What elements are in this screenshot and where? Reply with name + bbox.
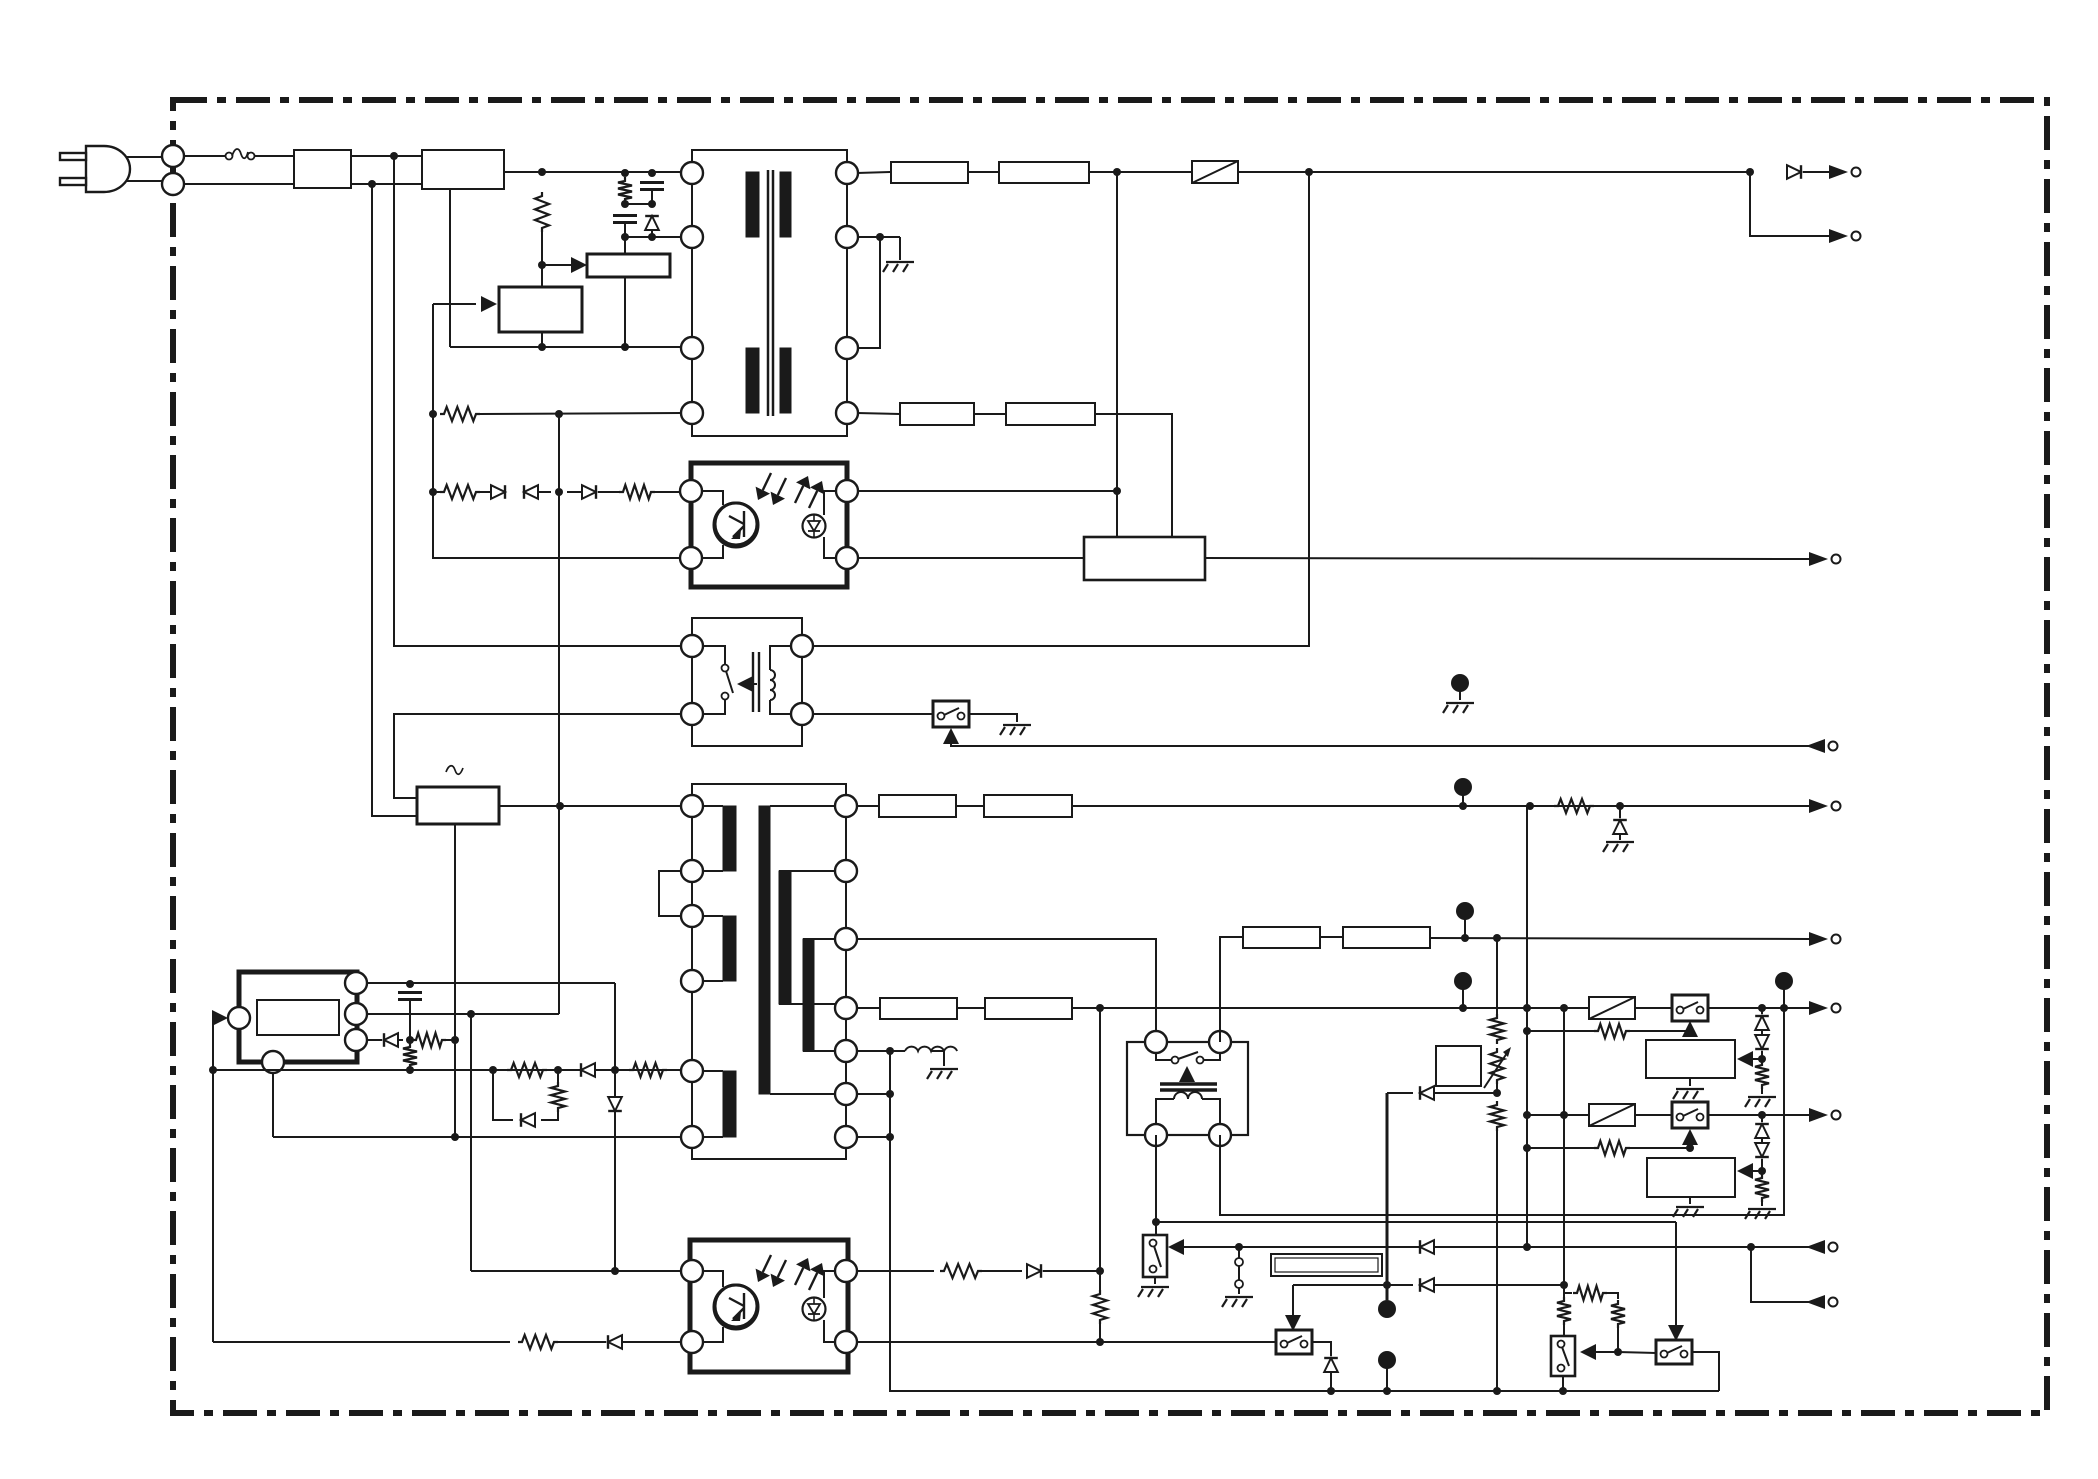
arrow into SW-A bbox=[943, 728, 959, 744]
zener ZD6 bbox=[1324, 1358, 1338, 1372]
node BC bbox=[1560, 1111, 1568, 1119]
node BK bbox=[1747, 1243, 1755, 1251]
node H bbox=[538, 343, 546, 351]
node BQ bbox=[1559, 1387, 1567, 1395]
wire SW4 left bbox=[1100, 1341, 1276, 1343]
wire to SW5 arrow bbox=[1591, 1351, 1618, 1353]
wire SW4 feed bbox=[1292, 1285, 1294, 1322]
T1 pin8 bbox=[836, 402, 858, 424]
resistor R22 bbox=[1611, 1300, 1625, 1328]
wire zch1 bbox=[1761, 1008, 1763, 1059]
T2 secondary bar B bbox=[803, 939, 814, 1051]
wire R22 to node bbox=[1617, 1328, 1619, 1352]
node BJ bbox=[1523, 1243, 1531, 1251]
PC1 pin3 bbox=[836, 480, 858, 502]
terminal OUT1 bbox=[1829, 165, 1861, 179]
resistor R10 bbox=[551, 1082, 565, 1112]
capacitor C3 bbox=[398, 993, 422, 1000]
RL1 core bbox=[753, 652, 759, 712]
wire J1-2 to filter bbox=[184, 183, 294, 185]
node E bbox=[648, 169, 656, 177]
wire V down bbox=[470, 1014, 472, 1271]
connector E4 bbox=[1454, 972, 1472, 1008]
wire T2 R7 stub bbox=[856, 1136, 890, 1138]
T2 primary bar 3 bbox=[723, 1071, 736, 1137]
T2 pinR5 bbox=[835, 1040, 857, 1062]
block U2 bbox=[587, 254, 670, 277]
resistor R13 bbox=[1093, 1290, 1107, 1324]
resistor R7 bbox=[403, 1043, 417, 1069]
wire R12 to D11 bbox=[982, 1270, 1022, 1272]
diode D3 bbox=[524, 485, 538, 499]
PC1 LED bbox=[803, 515, 826, 538]
RL2 core bbox=[1160, 1084, 1217, 1090]
connector pin J1-1 bbox=[162, 145, 184, 167]
node BM bbox=[1560, 1281, 1568, 1289]
diode D1 snubber bbox=[645, 216, 659, 230]
wire D13 segs bbox=[1413, 1246, 1527, 1248]
node BG bbox=[1686, 1144, 1694, 1152]
resistor R6 bbox=[412, 1033, 446, 1047]
node AN bbox=[1096, 1004, 1104, 1012]
switch SW6 bbox=[1656, 1340, 1692, 1364]
diode D9 bbox=[608, 1097, 622, 1111]
node AS bbox=[1780, 1004, 1788, 1012]
regulator block U4 bbox=[1084, 537, 1205, 580]
node AQ bbox=[1560, 1004, 1568, 1012]
T2 pinR7 bbox=[835, 1126, 857, 1148]
capacitor C1 snubber bbox=[613, 216, 637, 223]
node V bbox=[467, 1010, 475, 1018]
ground G5 bbox=[1138, 1287, 1169, 1297]
ground G3 bbox=[1443, 703, 1474, 713]
switch SW1 bbox=[1672, 995, 1708, 1021]
node AB bbox=[554, 1066, 562, 1074]
T1 core bbox=[768, 170, 773, 416]
ground G4 bbox=[1603, 842, 1634, 852]
wire VR1 to node bbox=[1496, 1084, 1498, 1093]
node L bbox=[555, 410, 563, 418]
AC plug P1 bbox=[60, 146, 130, 192]
ground G10 bbox=[1745, 1209, 1776, 1219]
PC2 pin1 bbox=[681, 1260, 703, 1282]
wire SW3 control bbox=[1180, 1246, 1815, 1248]
node W bbox=[406, 1036, 414, 1044]
wire D10 to PC2 bbox=[622, 1341, 682, 1343]
resistor R14 bbox=[1554, 799, 1594, 813]
transformer T1 outline bbox=[692, 150, 847, 436]
wire R10 up bbox=[557, 1070, 559, 1082]
terminal OUT5 bbox=[1809, 932, 1841, 946]
T2 pinR1 bbox=[835, 795, 857, 817]
wire D8 to R10 bbox=[541, 1112, 558, 1120]
wire FL5-FL6 bbox=[956, 805, 984, 807]
wire R3 to T1 pin4 bbox=[480, 413, 681, 414]
PC1 phototransistor bbox=[714, 503, 758, 547]
T2 main secondary bar bbox=[759, 806, 770, 1094]
optocoupler PC2 body bbox=[690, 1240, 848, 1372]
node T bbox=[556, 802, 564, 810]
diode D12 bbox=[1420, 1086, 1434, 1100]
wire U3 bottom stem bbox=[541, 332, 543, 347]
wire C2 down bbox=[651, 190, 653, 204]
node AM bbox=[1152, 1218, 1160, 1226]
RL2 pin4 bbox=[1209, 1124, 1231, 1146]
node BD bbox=[1758, 1111, 1766, 1119]
wire PC1 out bottom bbox=[857, 557, 1084, 559]
node R bbox=[1746, 168, 1754, 176]
node D bbox=[621, 233, 629, 241]
RL2 pin3 bbox=[1145, 1124, 1167, 1146]
wire FL1-FL2 bbox=[968, 171, 999, 173]
arrow into U3 bbox=[481, 296, 497, 312]
resistor R17 bbox=[1594, 1024, 1630, 1038]
node AT bbox=[886, 1047, 894, 1055]
wire zch2 bbox=[1761, 1115, 1763, 1171]
wire D12 to AW bbox=[1434, 1092, 1497, 1094]
wire neutral rail down to converter bbox=[372, 184, 417, 816]
T1 pin3 bbox=[681, 337, 703, 359]
RL1 arrow bbox=[737, 676, 757, 692]
terminal IN1 bbox=[1806, 739, 1838, 753]
wire SW6 return bbox=[1692, 1352, 1719, 1391]
PC2 pin4 bbox=[835, 1331, 857, 1353]
switch SW4 bbox=[1276, 1330, 1312, 1354]
wire IC1 feed vertical bbox=[212, 1018, 214, 1342]
resistor R12 bbox=[940, 1264, 982, 1278]
inductor FL6 bbox=[984, 795, 1072, 817]
inductor FL2 bbox=[999, 162, 1089, 183]
wire snubber link bbox=[625, 203, 652, 205]
arrow into IC1 bbox=[212, 1010, 228, 1026]
IC1 pin r2 bbox=[345, 1003, 367, 1025]
wire row1285 bbox=[1293, 1284, 1413, 1286]
terminal OUT6 bbox=[1809, 1001, 1841, 1015]
wire ground rail bbox=[890, 1051, 1719, 1391]
arrow into U2 bbox=[571, 257, 587, 273]
wire BM elbow bbox=[1564, 1285, 1572, 1293]
wire U5 gnd bbox=[1689, 1078, 1691, 1086]
wire RL2 pin2 up bbox=[1220, 937, 1243, 1042]
wire RL2 pin4 return bbox=[1220, 1008, 1784, 1215]
wire fuse to filter bbox=[254, 155, 294, 157]
wire R1 to U2 input bbox=[542, 232, 574, 265]
connector E2 bbox=[1454, 778, 1472, 806]
ground G11 bbox=[1222, 1297, 1253, 1307]
node AH bbox=[1459, 802, 1467, 810]
wire T2 R5 stub bbox=[856, 1050, 905, 1052]
fuse F1 bbox=[226, 149, 255, 160]
switch SW5 bbox=[1551, 1336, 1575, 1376]
diode D7 bbox=[581, 1063, 595, 1077]
connector E3 bbox=[1456, 902, 1474, 938]
arrow into SW4 bbox=[1285, 1315, 1301, 1331]
wire SW5 down bbox=[1562, 1376, 1564, 1391]
node neutral bbox=[368, 180, 376, 188]
wire ZD6 down bbox=[1330, 1372, 1332, 1391]
node F bbox=[648, 200, 656, 208]
node AD bbox=[611, 1267, 619, 1275]
RL1 pin2 bbox=[791, 635, 813, 657]
wire R18 gnd bbox=[1761, 1089, 1763, 1094]
wire PC1 out top bbox=[857, 490, 1117, 492]
node BI bbox=[1235, 1243, 1243, 1251]
wire row1070 bbox=[213, 1069, 682, 1071]
wire F2 to out bbox=[1238, 171, 1750, 173]
ground G1 bbox=[883, 262, 914, 272]
T2 pinL6 bbox=[681, 1126, 703, 1148]
wire IC1 r3 row bbox=[367, 1039, 382, 1041]
T1 pin5 bbox=[836, 162, 858, 184]
PC2 pin2 bbox=[681, 1331, 703, 1353]
connector E5 bbox=[1775, 972, 1793, 1008]
T2 pinR3 bbox=[835, 928, 857, 950]
node Y bbox=[406, 1066, 414, 1074]
variable resistor VR1 bbox=[1484, 1047, 1511, 1088]
T1 pin4 bbox=[681, 402, 703, 424]
PC1 internal links bbox=[701, 491, 837, 558]
arrow into U6 bbox=[1737, 1163, 1762, 1179]
inductor FL4 bbox=[1006, 403, 1095, 425]
rectifier block D-B1 bbox=[422, 150, 504, 189]
wire feedback vertical bbox=[433, 304, 681, 558]
IC1 pin bottom bbox=[262, 1051, 284, 1073]
inductor FL9 bbox=[880, 998, 957, 1019]
node Q bbox=[1305, 168, 1313, 176]
node AY bbox=[1523, 1027, 1531, 1035]
feedback bold line bbox=[1386, 1093, 1389, 1300]
wire D5 to terminal bbox=[1803, 171, 1830, 173]
RL2 coil bbox=[1156, 1092, 1220, 1125]
ground G7 bbox=[1673, 1089, 1704, 1099]
PC2 phototransistor bbox=[715, 1285, 757, 1327]
wire filter to rectifier L bbox=[351, 155, 422, 157]
wire rectifier to T1 pin1 bbox=[504, 171, 681, 173]
wire ch2 main bbox=[1527, 1114, 1810, 1116]
wire T1 pin5 out bbox=[857, 172, 891, 173]
node AR bbox=[1758, 1004, 1766, 1012]
node AZ bbox=[1686, 1027, 1694, 1035]
PC2 pin3 bbox=[835, 1260, 857, 1282]
wire U2 bottom stem bbox=[624, 277, 626, 347]
wire snubber to T1 pin2 bbox=[625, 236, 681, 238]
zener ZD1 bbox=[1613, 820, 1627, 834]
wire row1222 bbox=[1156, 1221, 1676, 1223]
block U6 bbox=[1647, 1158, 1735, 1197]
ground G2 bbox=[1000, 725, 1031, 735]
resistor R11 bbox=[518, 1335, 558, 1349]
wire SW3 gnd bbox=[1154, 1277, 1156, 1284]
fuse F4 bbox=[1589, 1104, 1635, 1126]
node AW bbox=[1493, 1089, 1501, 1097]
inductor L1 bbox=[905, 1047, 957, 1051]
wire R19 to arrow bbox=[1630, 1147, 1690, 1149]
border frame (dash-dot isolation boundary) bbox=[173, 100, 2047, 1413]
node J bbox=[429, 410, 437, 418]
T2 pin stubs bbox=[702, 806, 846, 1137]
wire segs row492 bbox=[480, 491, 491, 493]
wire VR chain top bbox=[1496, 938, 1498, 1014]
connector E6 bbox=[1378, 1300, 1396, 1318]
wire drop to OUT2 bbox=[1750, 172, 1830, 236]
wire row1271 bbox=[471, 1270, 682, 1272]
resistor R15 bbox=[1490, 1014, 1504, 1044]
loop branch bbox=[493, 1070, 513, 1120]
IC1 pin left bbox=[228, 1007, 250, 1029]
diode D2 bbox=[491, 485, 505, 499]
node AU bbox=[886, 1090, 894, 1098]
wire IC1 r2 row bbox=[367, 1013, 559, 1015]
PC2 LED bbox=[803, 1298, 826, 1321]
node AE bbox=[451, 1133, 459, 1141]
wire pin6 to pin7 link bbox=[857, 237, 880, 348]
wire FL3-FL4 bbox=[974, 413, 1006, 415]
wire U6 gnd bbox=[1689, 1197, 1691, 1204]
line filter LF1 bbox=[294, 150, 351, 188]
T2 pinR6 bbox=[835, 1083, 857, 1105]
T1 pin7 bbox=[836, 337, 858, 359]
wire RL1 pin4 to SW-A bbox=[812, 713, 934, 715]
wire row1137 bbox=[273, 1136, 682, 1138]
node N bbox=[876, 233, 884, 241]
node AA bbox=[489, 1066, 497, 1074]
T2 pin2-3 jumper bbox=[659, 871, 682, 916]
wire T2 R3 to RL2 bbox=[856, 939, 1156, 1042]
wire ch2 R row bbox=[1527, 1147, 1594, 1149]
optocoupler PC1 body bbox=[691, 463, 847, 587]
wire live rail down to relay bbox=[394, 156, 681, 646]
PC2 phototransistor bbox=[714, 1285, 758, 1329]
wire row983 to PC2 bbox=[614, 983, 616, 1271]
T2 pinR4 bbox=[835, 997, 857, 1019]
node C bbox=[621, 200, 629, 208]
node A bbox=[538, 168, 546, 176]
T2 pinL3 bbox=[681, 905, 703, 927]
wire D3 to node bbox=[538, 491, 551, 493]
wire node to D4 bbox=[433, 491, 441, 493]
wire T1 pin8 out bbox=[857, 413, 900, 414]
wire J1-1 to fuse bbox=[184, 155, 225, 157]
connector E7 bbox=[1378, 1351, 1396, 1391]
node BH bbox=[1758, 1167, 1766, 1175]
resistor R9 bbox=[629, 1063, 667, 1077]
diode D11 bbox=[1027, 1264, 1041, 1278]
wire FL4 to regulator bbox=[1095, 414, 1172, 537]
node A2 bbox=[538, 261, 546, 269]
wire B1 stem bbox=[454, 823, 456, 1137]
T2 pinL5 bbox=[681, 1060, 703, 1082]
T2 pinL2 bbox=[681, 860, 703, 882]
inductor FL3 bbox=[900, 403, 974, 425]
connector pin J1-2 bbox=[162, 173, 184, 195]
converter block B1 bbox=[417, 787, 499, 824]
fuse F3 bbox=[1589, 997, 1635, 1019]
terminal OUT3 bbox=[1809, 552, 1841, 566]
PC1 pin1 bbox=[680, 480, 702, 502]
wire SW4 right bbox=[1312, 1342, 1331, 1356]
resistor R16 bbox=[1490, 1101, 1504, 1131]
jumper J2 bbox=[1235, 1247, 1243, 1294]
node K bbox=[429, 488, 437, 496]
wire R11 to D10 bbox=[558, 1341, 606, 1343]
RL1 pin1 bbox=[681, 635, 703, 657]
node AJ bbox=[1616, 802, 1624, 810]
switch SW-A bbox=[933, 701, 969, 727]
wire row1342 left bbox=[213, 1341, 510, 1343]
RL1 pin4 bbox=[791, 703, 813, 725]
wire R6 to node bbox=[446, 1039, 455, 1041]
PC1 pin4 bbox=[836, 547, 858, 569]
PC2 light arrows bbox=[756, 1255, 825, 1290]
node BN bbox=[1327, 1387, 1335, 1395]
component box TH1 bbox=[1436, 1046, 1481, 1086]
PC1 pin2 bbox=[680, 547, 702, 569]
wire R13 stubs bbox=[1099, 1271, 1101, 1342]
wire D4 seg bbox=[567, 491, 619, 493]
controller IC1 body bbox=[239, 972, 357, 1062]
wire L1 to gnd bbox=[931, 1051, 944, 1066]
node AI bbox=[1526, 802, 1534, 810]
wire to gnd1 bbox=[899, 237, 901, 260]
resistor R5 bbox=[619, 485, 655, 499]
PC1 phototransistor bbox=[715, 503, 757, 545]
node P bbox=[1113, 168, 1121, 176]
node BP bbox=[1614, 1348, 1622, 1356]
node AO bbox=[1459, 1004, 1467, 1012]
T2 pinL4 bbox=[681, 970, 703, 992]
zener ZD4 bbox=[1755, 1124, 1769, 1138]
thermal fuse mark bbox=[446, 766, 463, 775]
node BF bbox=[1523, 1144, 1531, 1152]
RL1 switch bbox=[702, 646, 733, 714]
T1 primary winding bar lower bbox=[746, 348, 759, 413]
node AV bbox=[886, 1133, 894, 1141]
resistor R21 bbox=[1573, 1286, 1607, 1300]
wire FL8 to terminal bbox=[1430, 938, 1810, 939]
wire relay return to converter bbox=[394, 714, 681, 798]
arrow into SW1 bbox=[1682, 1021, 1698, 1037]
wire ZD1 bbox=[1619, 806, 1621, 840]
wire SW6 feed bbox=[1675, 1222, 1677, 1332]
wire R16 down bbox=[1496, 1131, 1498, 1391]
resistor R23 bbox=[1557, 1297, 1571, 1325]
wire filter to rectifier N bbox=[351, 183, 422, 185]
arrow into SW3 bbox=[1168, 1239, 1184, 1255]
diode D6 bbox=[384, 1033, 398, 1047]
wire IN3 feed bbox=[1751, 1247, 1815, 1302]
wire feedback net bbox=[433, 303, 476, 305]
wire C1 down bbox=[624, 223, 626, 237]
node B bbox=[621, 169, 629, 177]
terminal OUT2 bbox=[1829, 229, 1861, 243]
node AK bbox=[1461, 934, 1469, 942]
wire BP to SW6 bbox=[1618, 1352, 1656, 1353]
wire FL2 to fuse bbox=[1089, 171, 1192, 173]
wire D14 to BM bbox=[1434, 1284, 1564, 1286]
wire U2 top stem bbox=[624, 237, 626, 254]
label box LB1 bbox=[1271, 1254, 1382, 1276]
RL2 switch bbox=[1156, 1052, 1220, 1064]
wire sense v1 bbox=[1526, 806, 1528, 1247]
PC2 internal links bbox=[702, 1271, 836, 1342]
wire R23 stubs bbox=[1563, 1285, 1565, 1336]
wire FL7-FL8 bbox=[1320, 936, 1343, 938]
wire R17 to arrow bbox=[1630, 1030, 1690, 1032]
wire FL9-FL10 bbox=[957, 1007, 985, 1009]
node BO bbox=[1383, 1387, 1391, 1395]
PC1 light arrows bbox=[756, 473, 825, 508]
switch SW2 bbox=[1672, 1102, 1708, 1128]
